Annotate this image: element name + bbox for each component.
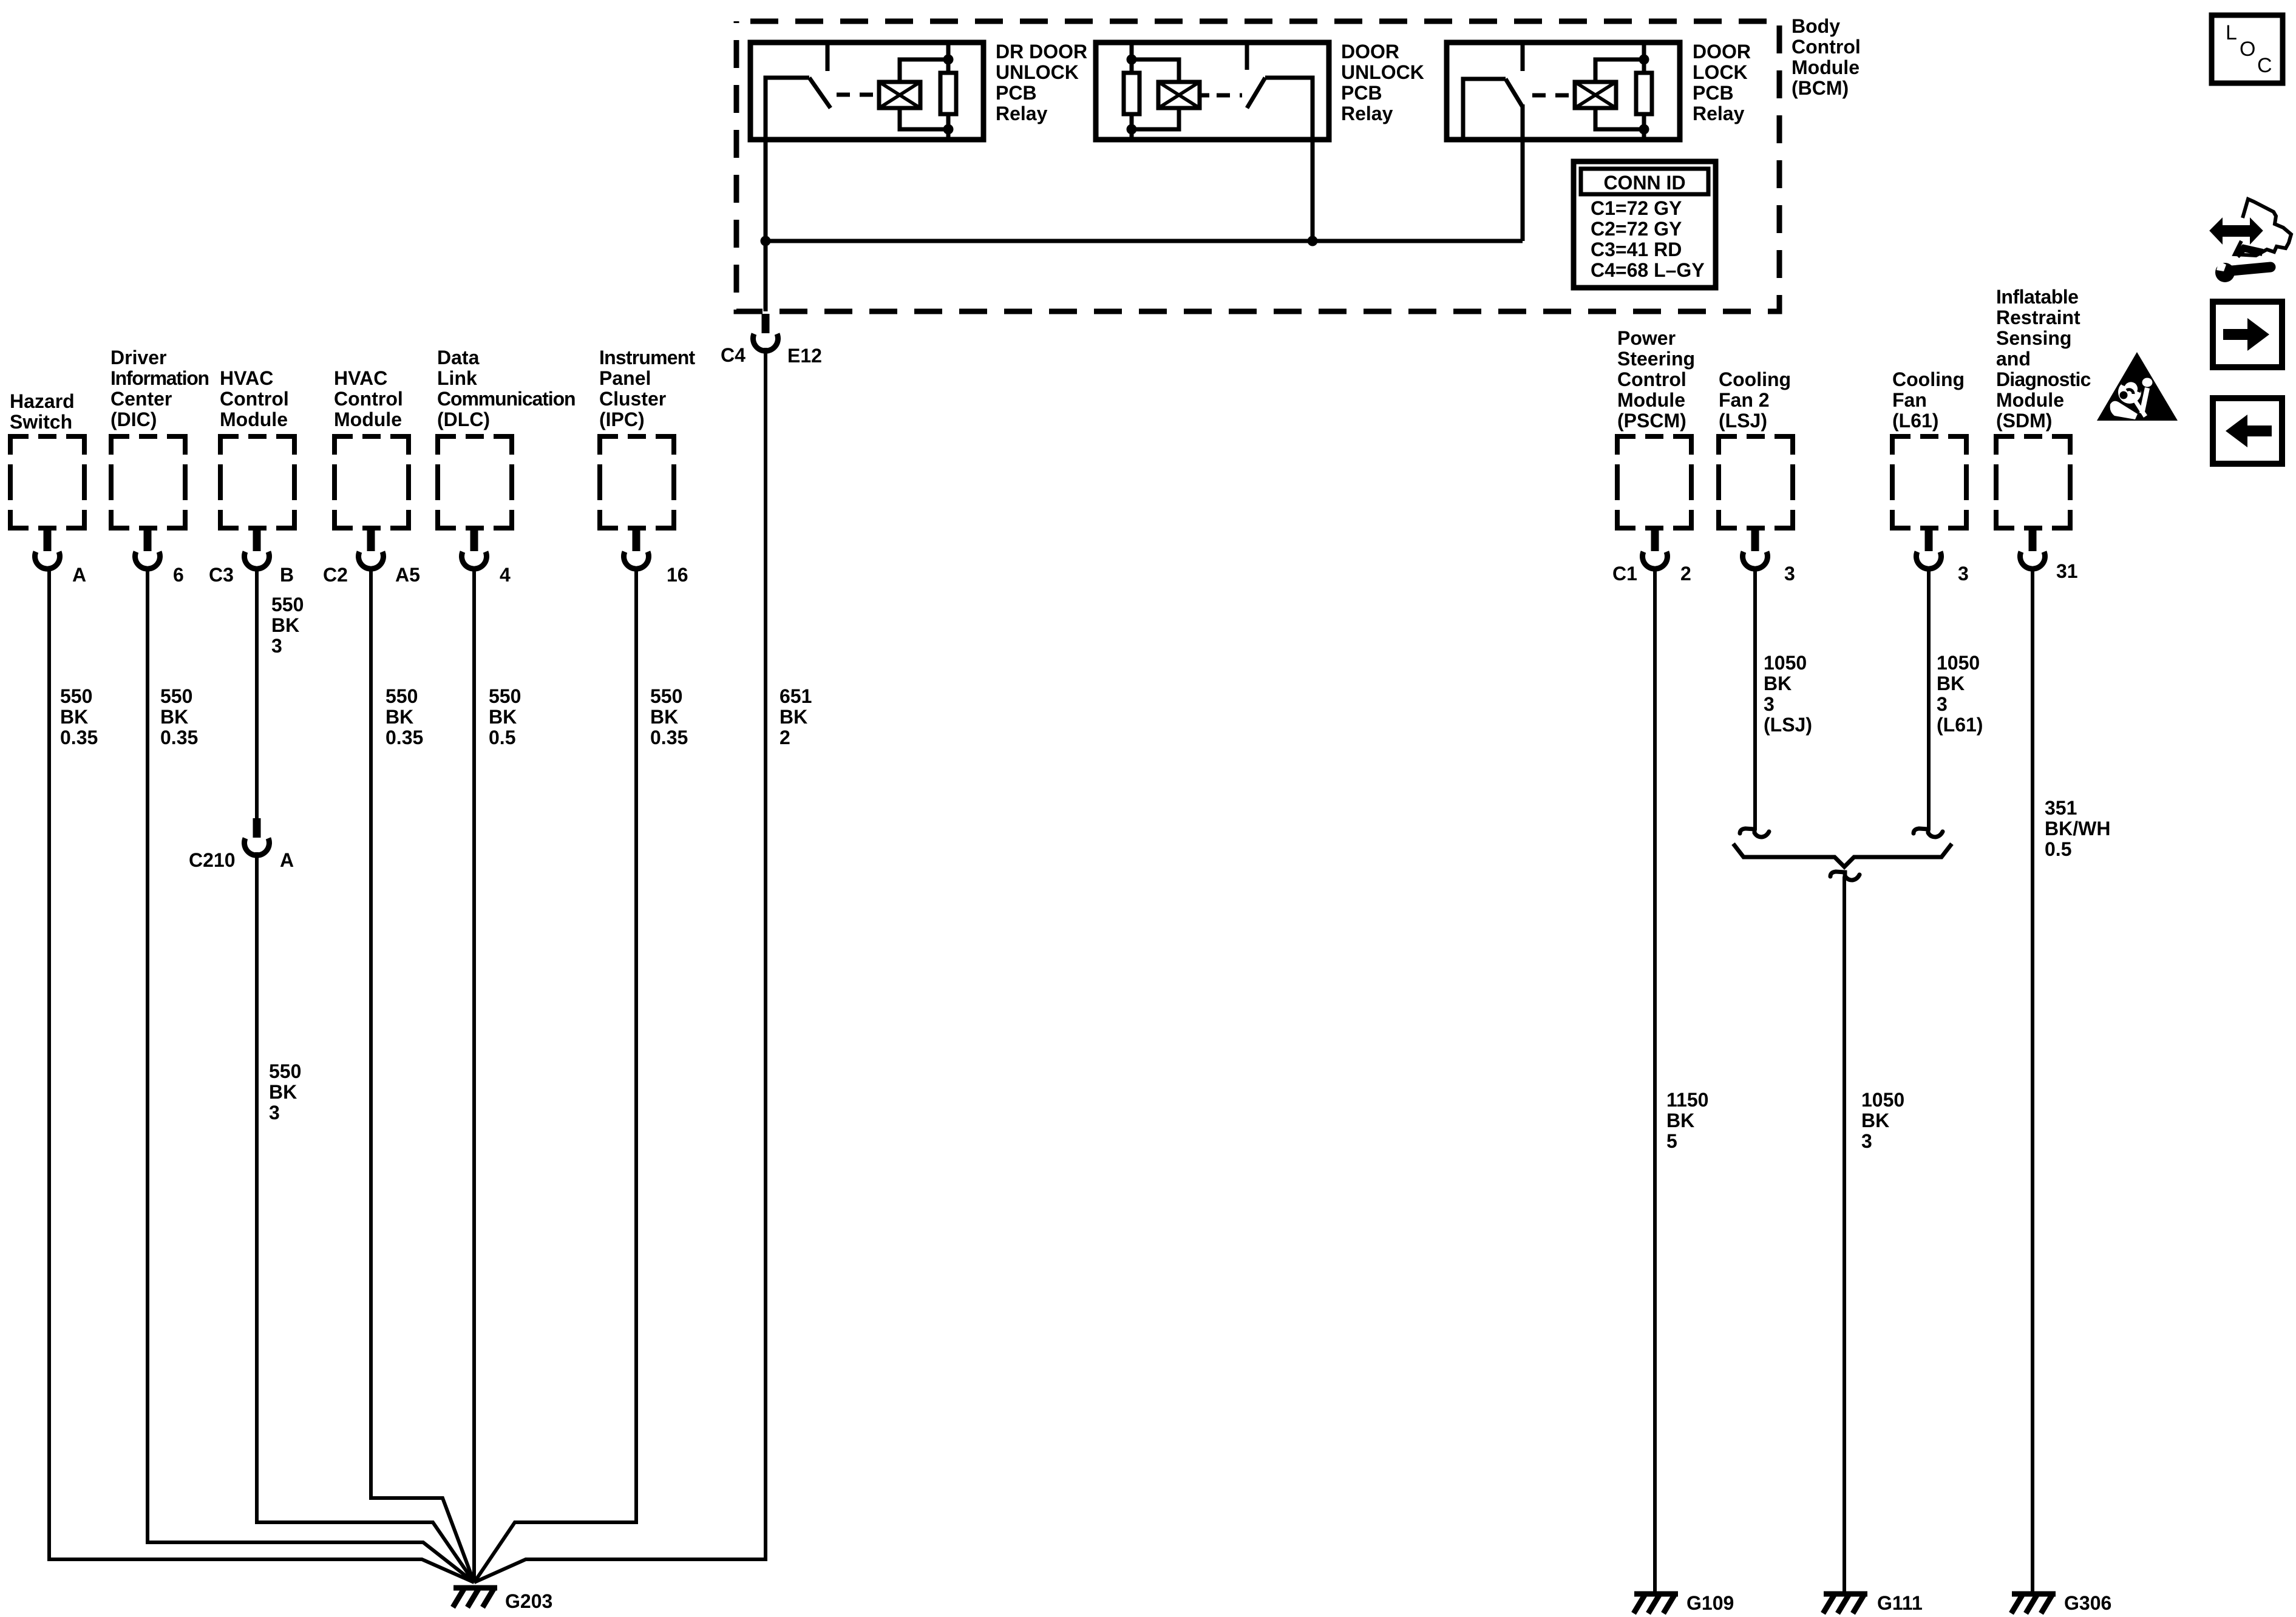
relay K2 resistor <box>1124 73 1140 114</box>
svg-text:C: C <box>2257 54 2272 77</box>
svg-text:(PSCM): (PSCM) <box>1617 410 1686 432</box>
Cooling Fan (L61) label <box>1892 368 1965 432</box>
svg-text:Control: Control <box>220 388 289 410</box>
svg-text:(DIC): (DIC) <box>110 408 157 430</box>
wire label 550 BK 0.35 (Hazard) <box>60 685 98 748</box>
splice hook Cooling Fan 2 wire end <box>1740 829 1769 837</box>
svg-text:Cooling: Cooling <box>1892 368 1965 390</box>
svg-text:3: 3 <box>1764 693 1775 715</box>
svg-text:550: 550 <box>160 685 192 707</box>
Driver Information Center (DIC) box <box>111 436 185 528</box>
svg-text:3: 3 <box>1937 693 1948 715</box>
relay K3 label <box>1693 41 1751 124</box>
svg-text:BK: BK <box>269 1081 297 1103</box>
BCM name label <box>1792 15 1861 99</box>
svg-text:1050: 1050 <box>1861 1089 1904 1111</box>
Cooling Fan (L61) connector <box>1917 527 1941 569</box>
svg-text:C2: C2 <box>323 564 348 586</box>
wire label 1150 BK 5 (PSCM) <box>1666 1089 1708 1152</box>
relay K2 junction dots <box>1127 55 1137 65</box>
svg-text:0.35: 0.35 <box>385 727 423 748</box>
svg-text:Switch: Switch <box>10 411 72 433</box>
svg-text:PCB: PCB <box>996 82 1037 104</box>
HVAC Control Module (C2) box <box>335 436 409 528</box>
wire label 550 BK 0.5 (DLC) <box>489 685 521 748</box>
relay K1 DR DOOR UNLOCK PCB Relay box <box>750 42 983 140</box>
svg-text:3: 3 <box>1784 563 1795 585</box>
Hazard Switch label <box>10 390 75 433</box>
splice hook below brace <box>1830 872 1860 880</box>
svg-text:Restraint: Restraint <box>1996 307 2080 328</box>
Data Link Communication (DLC) label <box>437 347 575 430</box>
relay K2 coil bottom lead <box>1132 108 1179 129</box>
relay K3 resistor <box>1636 73 1652 114</box>
svg-text:0.35: 0.35 <box>650 727 688 748</box>
ground G203 symbol <box>453 1588 497 1607</box>
svg-text:HVAC: HVAC <box>220 367 273 389</box>
HVAC Control Module (C2) label <box>334 367 403 430</box>
svg-text:Module: Module <box>1617 389 1685 411</box>
svg-text:O: O <box>2240 38 2255 61</box>
HVAC Control Module (C3) label <box>220 367 289 430</box>
svg-text:BK: BK <box>1764 673 1792 694</box>
ground G306 symbol <box>2011 1594 2056 1613</box>
relay K3 switch blade <box>1506 79 1523 107</box>
relay K1 coil <box>879 82 920 108</box>
svg-text:3: 3 <box>271 635 282 657</box>
Body Control Module (BCM) dashed enclosure <box>736 21 1779 311</box>
svg-text:C4: C4 <box>721 344 746 366</box>
svg-text:(LSJ): (LSJ) <box>1719 410 1767 432</box>
Instrument Panel Cluster (IPC) box <box>600 436 674 528</box>
svg-text:Control: Control <box>1617 368 1686 390</box>
wire 1050 BK 3 Cooling Fan to splice <box>1927 568 1931 830</box>
Inflatable Restraint Sensing and Diagnostic Module (SDM) connector <box>2020 527 2045 569</box>
svg-text:C4=68 L–GY: C4=68 L–GY <box>1591 259 1705 281</box>
relay K1 coil bottom lead <box>900 108 948 129</box>
splice hook Cooling Fan wire end <box>1914 829 1943 837</box>
svg-text:Instrument: Instrument <box>599 347 695 368</box>
relay K3 DOOR LOCK PCB Relay box <box>1447 42 1680 140</box>
svg-text:1150: 1150 <box>1666 1089 1708 1111</box>
svg-text:3: 3 <box>1958 563 1969 585</box>
svg-text:G109: G109 <box>1686 1592 1734 1614</box>
svg-text:3: 3 <box>1861 1130 1872 1152</box>
splice brace <box>1733 844 1952 867</box>
svg-text:(DLC): (DLC) <box>437 408 490 430</box>
svg-text:C2=72 GY: C2=72 GY <box>1591 218 1682 240</box>
svg-text:PCB: PCB <box>1341 82 1382 104</box>
svg-text:Relay: Relay <box>1341 103 1393 124</box>
junction node relay K2 wire / bus <box>1308 236 1318 246</box>
ground G111 symbol <box>1823 1594 1867 1613</box>
wire 550 BK 0.35 DIC to G203 <box>148 568 474 1582</box>
Cooling Fan (L61) box <box>1892 436 1966 528</box>
svg-text:0.35: 0.35 <box>60 727 98 748</box>
svg-text:BK: BK <box>1861 1110 1889 1131</box>
svg-text:C1: C1 <box>1612 563 1637 585</box>
svg-text:Steering: Steering <box>1617 348 1695 370</box>
wire relay K3 output to ground bus <box>1521 104 1525 241</box>
relay K1 actuator dashed link <box>837 93 881 97</box>
svg-text:0.5: 0.5 <box>2045 838 2071 860</box>
svg-text:BK/WH: BK/WH <box>2045 818 2110 839</box>
Power Steering Control Module (PSCM) box <box>1617 436 1691 528</box>
wire 651 BK 2 BCM E12 to G203 <box>474 348 766 1582</box>
svg-text:16: 16 <box>667 564 688 586</box>
svg-text:BK: BK <box>60 706 88 728</box>
relay K3 switch fixed contact <box>1521 42 1525 71</box>
relay K1 resistor rail <box>946 42 951 73</box>
svg-text:(IPC): (IPC) <box>599 408 645 430</box>
svg-text:DOOR: DOOR <box>1693 41 1751 63</box>
svg-text:A5: A5 <box>395 564 420 586</box>
svg-text:1050: 1050 <box>1937 652 1980 674</box>
connector C210 pin A <box>245 818 270 855</box>
wire 550 BK 3 HVAC to C210 <box>255 568 259 818</box>
svg-text:B: B <box>280 564 294 586</box>
SIR airbag warning triangle <box>2097 352 2178 421</box>
wire label 1050 BK 3 (L61) <box>1937 652 1983 736</box>
service/repair icon (double arrow, outline, wrench) <box>2211 199 2291 282</box>
relay K2 DOOR UNLOCK PCB Relay box <box>1096 42 1329 140</box>
relay K2 actuator dashed link <box>1217 93 1242 98</box>
svg-text:G306: G306 <box>2064 1592 2111 1614</box>
svg-text:DOOR: DOOR <box>1341 41 1399 63</box>
relay K1 switch blade <box>809 78 830 108</box>
Data Link Communication (DLC) connector <box>461 527 486 569</box>
wire relay K1 output to connector C4 pin E12 <box>764 140 768 311</box>
relay K3 resistor rail <box>1642 42 1646 73</box>
svg-text:Fan: Fan <box>1892 389 1927 411</box>
svg-text:3: 3 <box>269 1102 280 1124</box>
svg-text:Power: Power <box>1617 327 1676 349</box>
svg-text:G203: G203 <box>505 1590 552 1612</box>
svg-text:2: 2 <box>779 727 790 748</box>
svg-text:Module: Module <box>334 408 402 430</box>
relay K2 switch arm wire <box>1265 78 1313 140</box>
LOC reference icon box <box>2212 15 2283 83</box>
wire 550 BK 3 C210 to G203 <box>257 852 474 1582</box>
svg-text:Center: Center <box>110 388 172 410</box>
Inflatable Restraint Sensing and Diagnostic Module (SDM) label <box>1996 286 2091 432</box>
svg-text:BK: BK <box>160 706 188 728</box>
relay K1 coil top lead <box>900 59 948 82</box>
svg-text:Inflatable: Inflatable <box>1996 286 2078 308</box>
svg-text:C210: C210 <box>189 849 236 871</box>
svg-text:Driver: Driver <box>110 347 167 368</box>
svg-text:CONN ID: CONN ID <box>1603 172 1685 194</box>
relay K3 actuator dashed link <box>1532 93 1575 98</box>
wire label 1050 BK 3 (fans common) <box>1861 1089 1904 1152</box>
svg-text:Module: Module <box>220 408 288 430</box>
relay K3 coil <box>1575 82 1616 108</box>
svg-text:0.5: 0.5 <box>489 727 515 748</box>
svg-text:550: 550 <box>650 685 682 707</box>
svg-text:550: 550 <box>385 685 418 707</box>
Driver Information Center (DIC) label <box>110 347 209 430</box>
svg-text:550: 550 <box>269 1060 301 1082</box>
svg-text:Control: Control <box>334 388 403 410</box>
connector C4 / E12 (BCM to body harness) <box>753 314 778 351</box>
svg-text:A: A <box>72 564 86 586</box>
svg-text:Body: Body <box>1792 15 1840 37</box>
wire label 351 BK/WH 0.5 (SDM) <box>2045 797 2110 860</box>
svg-text:351: 351 <box>2045 797 2077 819</box>
svg-text:Relay: Relay <box>996 103 1048 124</box>
svg-text:Hazard: Hazard <box>10 390 75 412</box>
Power Steering Control Module (PSCM) label <box>1617 327 1695 432</box>
svg-text:LOCK: LOCK <box>1693 61 1748 83</box>
Cooling Fan 2 (LSJ) label <box>1719 368 1791 432</box>
wire relay K2 output to ground bus <box>1311 78 1315 241</box>
svg-text:(L61): (L61) <box>1892 410 1938 432</box>
wire label 550 BK 0.35 (HVAC A5) <box>385 685 423 748</box>
Instrument Panel Cluster (IPC) connector <box>624 527 649 569</box>
svg-text:550: 550 <box>489 685 521 707</box>
relay K3 switch arm wire <box>1463 79 1506 140</box>
svg-text:and: and <box>1996 348 2031 370</box>
svg-text:1050: 1050 <box>1764 652 1807 674</box>
relay K1 junction dots <box>943 55 954 65</box>
svg-text:BK: BK <box>1937 673 1965 694</box>
svg-text:(L61): (L61) <box>1937 714 1983 736</box>
svg-text:C3: C3 <box>209 564 234 586</box>
svg-text:4: 4 <box>500 564 511 586</box>
wire 550 BK 0.35 HVAC A5 to G203 <box>371 568 474 1582</box>
relay K1 resistor <box>940 73 956 114</box>
Cooling Fan 2 (LSJ) box <box>1719 436 1793 528</box>
wire 1050 BK 3 splice to G111 <box>1843 876 1846 1592</box>
svg-text:UNLOCK: UNLOCK <box>996 61 1079 83</box>
relay K2 resistor rail <box>1130 42 1134 73</box>
relay K2 coil stub <box>1200 93 1209 98</box>
HVAC Control Module (C3) box <box>220 436 294 528</box>
CONN ID table <box>1574 161 1716 288</box>
svg-text:Diagnostic: Diagnostic <box>1996 368 2091 390</box>
svg-text:DR DOOR: DR DOOR <box>996 41 1087 63</box>
HVAC Control Module (C3) connector <box>244 527 269 569</box>
svg-text:5: 5 <box>1666 1130 1677 1152</box>
svg-text:6: 6 <box>173 564 184 586</box>
svg-text:Information: Information <box>110 367 209 389</box>
svg-text:BK: BK <box>1666 1110 1694 1131</box>
svg-text:651: 651 <box>779 685 812 707</box>
svg-text:2: 2 <box>1680 563 1691 585</box>
svg-text:Communication: Communication <box>437 388 575 410</box>
Hazard Switch box <box>10 436 84 528</box>
svg-text:C3=41 RD: C3=41 RD <box>1591 239 1682 260</box>
Inflatable Restraint Sensing and Diagnostic Module (SDM) box <box>1996 436 2070 528</box>
svg-text:A: A <box>280 849 294 871</box>
svg-text:L: L <box>2226 21 2237 44</box>
svg-text:BK: BK <box>489 706 517 728</box>
HVAC Control Module (C2) connector <box>359 527 384 569</box>
svg-text:Data: Data <box>437 347 480 368</box>
wire label 550 BK 3 (HVAC upper) <box>271 594 304 657</box>
svg-text:550: 550 <box>271 594 304 615</box>
relay K3 coil top lead <box>1595 59 1644 82</box>
wire 351 BK/WH 0.5 SDM to G306 <box>2031 568 2034 1592</box>
relay K1 switch fixed contact <box>826 42 830 71</box>
svg-text:31: 31 <box>2056 560 2078 582</box>
svg-text:(SDM): (SDM) <box>1996 410 2052 432</box>
ground G109 symbol <box>1634 1594 1678 1613</box>
svg-text:BK: BK <box>385 706 413 728</box>
relay K3 junction dots <box>1639 55 1649 65</box>
wire 550 BK 0.35 Hazard Switch to G203 <box>49 568 474 1582</box>
Power Steering Control Module (PSCM) connector <box>1643 527 1668 569</box>
svg-text:BK: BK <box>650 706 678 728</box>
wire 1050 BK 3 Cooling Fan 2 to splice <box>1753 568 1757 830</box>
relay K1 switch arm wire <box>766 78 809 140</box>
svg-text:Cooling: Cooling <box>1719 368 1791 390</box>
wire 550 BK 0.35 IPC to G203 <box>474 568 636 1582</box>
svg-text:Control: Control <box>1792 36 1861 58</box>
svg-text:0.35: 0.35 <box>160 727 198 748</box>
relay K2 coil <box>1158 82 1200 108</box>
wire label 1050 BK 3 (LSJ) <box>1764 652 1812 736</box>
wire label 651 BK 2 (BCM) <box>779 685 812 748</box>
BCM internal ground bus <box>766 239 1523 243</box>
wire 550 BK 0.5 DLC to G203 <box>472 568 476 1582</box>
wire 1150 BK 5 PSCM to G109 <box>1653 568 1657 1592</box>
relay K2 label <box>1341 41 1424 124</box>
svg-text:Sensing: Sensing <box>1996 327 2071 349</box>
svg-text:Panel: Panel <box>599 367 651 389</box>
svg-text:BK: BK <box>271 614 299 636</box>
svg-text:Relay: Relay <box>1693 103 1745 124</box>
svg-text:Fan 2: Fan 2 <box>1719 389 1770 411</box>
svg-text:PCB: PCB <box>1693 82 1734 104</box>
svg-text:(LSJ): (LSJ) <box>1764 714 1812 736</box>
Cooling Fan 2 (LSJ) connector <box>1743 527 1768 569</box>
svg-text:E12: E12 <box>787 345 822 367</box>
svg-text:C1=72 GY: C1=72 GY <box>1591 197 1682 219</box>
wire label 550 BK 0.35 (DIC) <box>160 685 198 748</box>
Data Link Communication (DLC) box <box>438 436 512 528</box>
relay K2 switch blade <box>1247 78 1265 108</box>
relay K2 coil top lead <box>1132 59 1179 82</box>
relay K3 coil bottom lead <box>1595 108 1644 129</box>
svg-text:BK: BK <box>779 706 807 728</box>
svg-text:Cluster: Cluster <box>599 388 666 410</box>
back arrow icon box <box>2213 398 2282 464</box>
wire label 550 BK 0.35 (IPC) <box>650 685 688 748</box>
wire label 550 BK 3 (below C210) <box>269 1060 301 1124</box>
svg-text:Link: Link <box>437 367 477 389</box>
svg-text:Module: Module <box>1792 56 1860 78</box>
svg-text:G111: G111 <box>1877 1592 1923 1614</box>
svg-text:UNLOCK: UNLOCK <box>1341 61 1424 83</box>
svg-text:Module: Module <box>1996 389 2064 411</box>
svg-text:(BCM): (BCM) <box>1792 77 1849 99</box>
junction node relay K1 wire / bus <box>761 236 771 246</box>
Instrument Panel Cluster (IPC) label <box>599 347 695 430</box>
relay K2 switch fixed contact <box>1245 42 1249 70</box>
svg-text:550: 550 <box>60 685 92 707</box>
forward arrow icon box <box>2213 302 2282 367</box>
svg-text:HVAC: HVAC <box>334 367 387 389</box>
Hazard Switch connector <box>35 527 59 569</box>
Driver Information Center (DIC) connector <box>135 527 160 569</box>
relay K1 label <box>996 41 1087 124</box>
